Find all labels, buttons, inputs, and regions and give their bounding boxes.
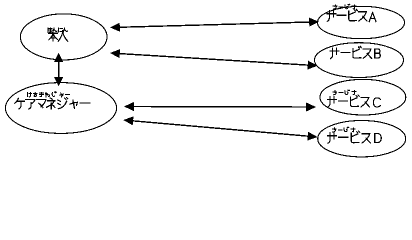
text: service B	[330, 47, 380, 59]
ellipse: honnin (person)	[20, 14, 107, 60]
ellipse: care manager	[5, 83, 116, 134]
ellipse: service A	[318, 6, 405, 38]
text: service A	[327, 4, 376, 21]
arrow: care manager - service C	[124, 102, 316, 112]
text: service C	[328, 90, 381, 107]
text: care manager (ruby + katakana)	[15, 92, 90, 109]
text: honnin (ruby hon-nin + kanji)	[48, 28, 68, 41]
arrow: honnin - service A	[110, 18, 319, 32]
arrow: care manager - service D	[123, 116, 317, 140]
text: service D	[328, 127, 382, 143]
arrow: honnin - service B	[110, 49, 318, 70]
arrow: honnin - care manager	[54, 53, 63, 86]
ellipse: service B	[315, 43, 404, 78]
ellipse: service C	[320, 79, 406, 115]
ellipse: service D	[318, 121, 406, 157]
